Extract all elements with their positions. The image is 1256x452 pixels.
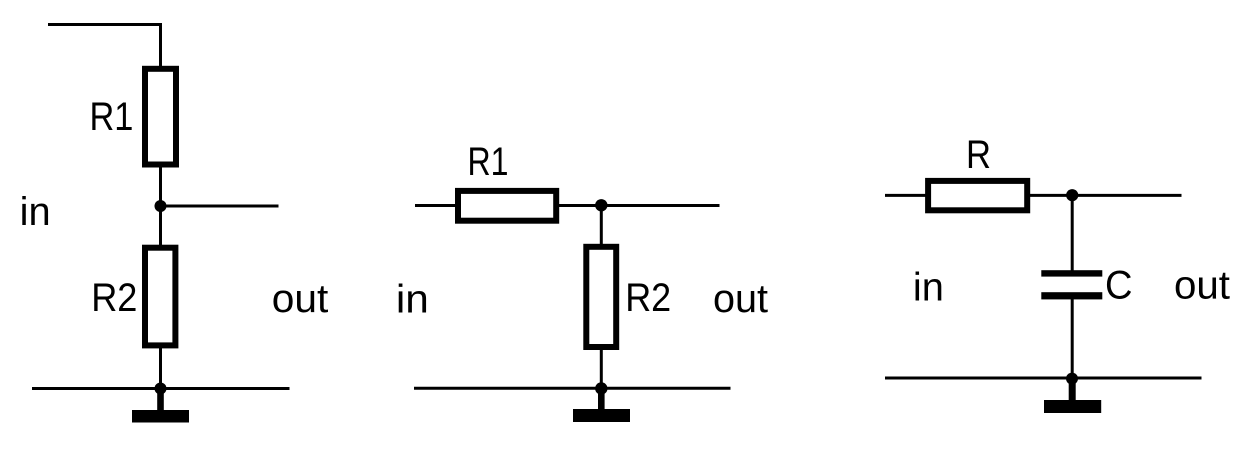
svg-text:R2: R2 <box>91 276 137 320</box>
svg-text:R1: R1 <box>468 140 509 184</box>
svg-text:out: out <box>1174 263 1230 307</box>
svg-text:in: in <box>20 190 51 234</box>
svg-text:R1: R1 <box>90 95 134 139</box>
svg-text:in: in <box>396 277 429 321</box>
svg-text:R2: R2 <box>625 276 671 320</box>
svg-text:out: out <box>713 277 768 321</box>
svg-text:out: out <box>272 277 329 321</box>
svg-text:R: R <box>966 133 991 177</box>
svg-text:in: in <box>913 265 944 309</box>
svg-text:C: C <box>1105 264 1133 308</box>
